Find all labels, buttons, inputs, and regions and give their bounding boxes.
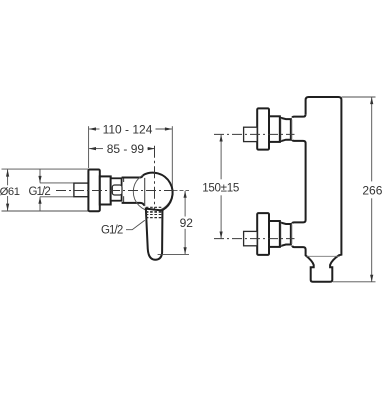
bottom inlet: nut-ring seam — [280, 223, 282, 246]
svg-text:266: 266 — [362, 184, 382, 198]
svg-text:85 - 99: 85 - 99 — [107, 142, 145, 156]
wall supply tail — [74, 183, 89, 197]
body bottom edge — [122, 203, 145, 206]
top inlet: union nut — [280, 118, 291, 142]
dimension 110 - 124 — [89, 126, 173, 194]
svg-text:G1/2: G1/2 — [29, 186, 51, 198]
escutcheon flange outer — [88, 170, 99, 212]
svg-text:92: 92 — [180, 216, 194, 230]
centerline vertical cartridge axis — [154, 146, 156, 209]
top inlet: nut-ring seam — [280, 118, 282, 141]
handle dome thin circle — [133, 172, 172, 211]
handle dome thick arc — [143, 173, 173, 211]
label G1/2 wall unions — [40, 169, 74, 211]
dimension 92 — [174, 190, 190, 192]
top inlet: escutcheon inner — [269, 116, 280, 142]
bottom inlet: supply tail — [244, 231, 258, 245]
svg-text:110 - 124: 110 - 124 — [103, 122, 153, 136]
outlet thread dashes (hidden G1/2) — [146, 207, 162, 217]
label G1/2 outlet leader — [126, 220, 145, 229]
top inlet: escutcheon outer — [257, 108, 269, 149]
top inlet: supply tail — [244, 127, 258, 141]
body top edge — [122, 175, 143, 177]
boss top — [292, 114, 305, 223]
dome face line — [144, 178, 146, 206]
escutcheon flange inner ring — [100, 176, 111, 204]
centerline horizontal — [56, 190, 174, 192]
dimension Ø61 — [2, 169, 89, 211]
seam lines — [123, 178, 125, 182]
body fill — [292, 97, 341, 282]
centerline bottom inlet — [214, 238, 295, 240]
body outline right and top — [306, 97, 342, 282]
top inlet: seam — [291, 120, 293, 140]
lever handle — [146, 209, 163, 260]
neck — [111, 178, 122, 200]
boss bottom — [292, 246, 305, 250]
bottom inlet: seam — [291, 224, 293, 244]
shoulder line — [307, 255, 340, 257]
bottom inlet: union nut — [280, 222, 291, 246]
centerline top inlet — [214, 133, 295, 135]
small union nut detail — [112, 185, 122, 195]
svg-text:Ø61: Ø61 — [0, 186, 20, 198]
bottom inlet: escutcheon inner — [269, 221, 280, 247]
dimension 266 — [342, 96, 376, 98]
dimension 85 - 99 — [89, 148, 154, 150]
bottom inlet: escutcheon outer — [257, 213, 269, 255]
svg-text:G1/2: G1/2 — [101, 225, 123, 237]
svg-text:150±15: 150±15 — [202, 182, 239, 195]
dimension 150±15 — [220, 135, 222, 180]
